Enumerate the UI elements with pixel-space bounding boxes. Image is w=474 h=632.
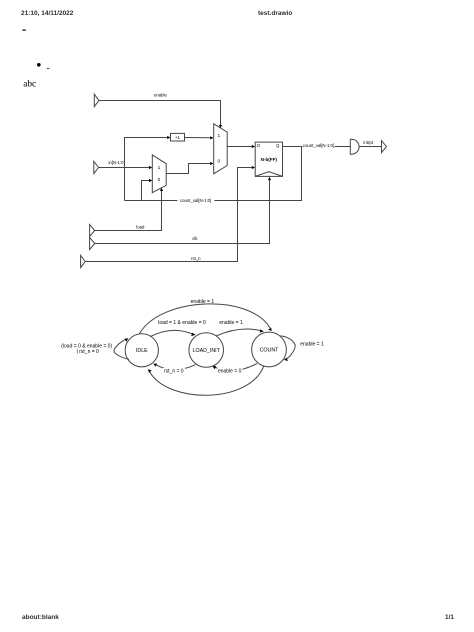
- input port enable: [94, 94, 99, 106]
- FF clock chevron: [255, 172, 282, 177]
- flip-flop N-b(FF): [255, 142, 282, 176]
- wire rst_n: [85, 168, 252, 262]
- transition COUNT to LOAD_INIT: [215, 364, 257, 371]
- svg-text:1: 1: [217, 133, 220, 139]
- svg-text:intrpt: intrpt: [363, 140, 373, 145]
- svg-text:enable: enable: [154, 93, 168, 98]
- footer page number: [445, 614, 454, 621]
- list bullet: [37, 63, 41, 67]
- svg-text:clk: clk: [192, 236, 198, 241]
- transition LOAD_INIT to IDLE: [156, 365, 195, 370]
- wire feedback vertical: [125, 147, 302, 201]
- paragraph dash: [22, 29, 25, 31]
- and gate U1: [350, 139, 359, 154]
- transition IDLE self-loop: [114, 339, 129, 359]
- header date: [21, 10, 73, 17]
- state COUNT: [252, 332, 287, 367]
- state IDLE: [125, 334, 158, 367]
- svg-text:count_val[N-1:0]: count_val[N-1:0]: [303, 143, 334, 148]
- svg-text:COUNT: COUNT: [260, 347, 280, 353]
- label enable = 0: [218, 368, 243, 374]
- wire in: [99, 167, 150, 169]
- svg-text:load = 1 & enable = 0: load = 1 & enable = 0: [158, 320, 206, 326]
- svg-text:enable = 1: enable = 1: [219, 320, 243, 326]
- input port rst_n: [81, 255, 86, 267]
- svg-text:rst_n: rst_n: [191, 256, 201, 261]
- svg-text:enable = 0: enable = 0: [218, 368, 242, 374]
- wire count_val to +1: [125, 138, 168, 201]
- footer url: [22, 614, 59, 621]
- svg-text:LOAD_INIT: LOAD_INIT: [193, 348, 221, 354]
- svg-text:N-b(FF): N-b(FF): [261, 157, 278, 162]
- svg-text:0: 0: [217, 158, 220, 164]
- svg-text:load: load: [136, 224, 145, 229]
- svg-text:IDLE: IDLE: [136, 348, 148, 354]
- svg-text:0: 0: [158, 177, 161, 183]
- transition IDLE to LOAD_INIT: [151, 330, 194, 336]
- svg-text:+1: +1: [175, 135, 181, 140]
- transition IDLE to COUNT big arc: [140, 304, 271, 334]
- svg-text:D: D: [257, 143, 260, 148]
- wire mux2 out to FF D: [227, 146, 252, 148]
- svg-text:in[N-1:0]: in[N-1:0]: [108, 160, 124, 165]
- svg-text:rst_n = 0: rst_n = 0: [164, 368, 184, 374]
- input port clk: [90, 237, 95, 249]
- label count_val upper: [303, 143, 335, 148]
- wire enable: [99, 101, 221, 126]
- header title: [258, 10, 292, 17]
- label count_val lower: [177, 198, 214, 203]
- state LOAD_INIT: [189, 333, 224, 368]
- input port load: [90, 225, 95, 237]
- svg-text:enable = 1: enable = 1: [300, 342, 324, 348]
- adder +1: [171, 133, 185, 141]
- wire clk: [95, 180, 270, 243]
- transition COUNT to IDLE big bottom arc: [150, 366, 264, 396]
- wire count_val to mux1 in0: [142, 181, 150, 201]
- input port in[N-1:0]: [94, 161, 99, 173]
- wire Q to AND with feedback branch: [283, 146, 351, 148]
- transition COUNT self-loop: [281, 336, 296, 360]
- wire and out: [359, 146, 381, 148]
- label rst_n = 0: [163, 368, 185, 374]
- svg-text:enable = 1: enable = 1: [191, 299, 215, 305]
- transition LOAD_INIT to COUNT: [216, 329, 261, 336]
- mux M1: [152, 155, 166, 193]
- svg-text:count_val[N-1:0]: count_val[N-1:0]: [180, 198, 211, 203]
- svg-text:| rst_n = 0: | rst_n = 0: [77, 349, 100, 355]
- wire +1 to mux2: [185, 137, 211, 139]
- svg-text:Q: Q: [276, 143, 280, 148]
- output port intrpt: [382, 141, 387, 153]
- wire load: [95, 191, 162, 231]
- list item dash: [47, 68, 50, 69]
- svg-text:abc: abc: [23, 80, 36, 90]
- wire mux1 out to mux2 in0: [166, 164, 210, 174]
- svg-text:1: 1: [158, 165, 161, 171]
- mux M2: [214, 124, 228, 174]
